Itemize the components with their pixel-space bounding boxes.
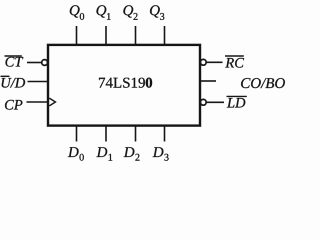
label D0 subscript [80,154,84,161]
wire RC lead [206,61,222,63]
label D2 letter [124,147,135,157]
label Q1 subscript [107,13,111,20]
label D3 letter [153,147,164,157]
wire D1 stub [105,127,107,142]
overline of CT label [5,55,22,57]
label Q1 letter [97,5,107,17]
wire U/D lead [28,81,49,83]
label D2 subscript [135,154,139,161]
clock triangle on CP input [49,98,55,106]
label CT letters [6,57,24,67]
wire LD lead [206,101,224,103]
inversion bubble on RC pin [200,59,206,65]
wire Q0 stub [76,26,78,44]
label RC letters [225,58,244,68]
label Q3 subscript [160,13,164,20]
wire Q3 stub [164,26,166,44]
wire Q2 stub [135,26,137,44]
label Q3 letter [150,5,160,17]
label CP letters [5,100,22,110]
label D1 letter [96,147,107,157]
wire D0 stub [76,127,78,142]
label CO/BO letters [241,78,285,88]
label U/D letters [2,78,26,88]
overline of U in U/D label [1,75,10,77]
label Q2 subscript [134,13,138,20]
wire CO/BO lead [200,80,216,82]
overline of RC label [225,55,244,57]
label bold 0 (of 74LS190) [146,78,152,88]
inversion bubble on CT pin [42,60,48,66]
label Q0 letter [70,5,80,17]
label D3 subscript [164,154,168,161]
wire Q1 stub [105,26,107,44]
label D0 letter [68,147,79,157]
label Q0 subscript [80,13,84,20]
IC body 74LS190 outline [48,45,200,126]
inversion bubble on LD pin [200,99,206,105]
label LD letters [227,98,246,108]
wire CT lead [27,62,42,64]
wire D3 stub [164,127,166,142]
wire CP lead [27,101,49,103]
label Q2 letter [123,5,133,17]
wire D2 stub [135,127,137,142]
label D1 subscript [109,154,113,161]
overline of LD label [227,95,247,97]
label 74LS19 (part of 74LS190) [99,78,145,88]
